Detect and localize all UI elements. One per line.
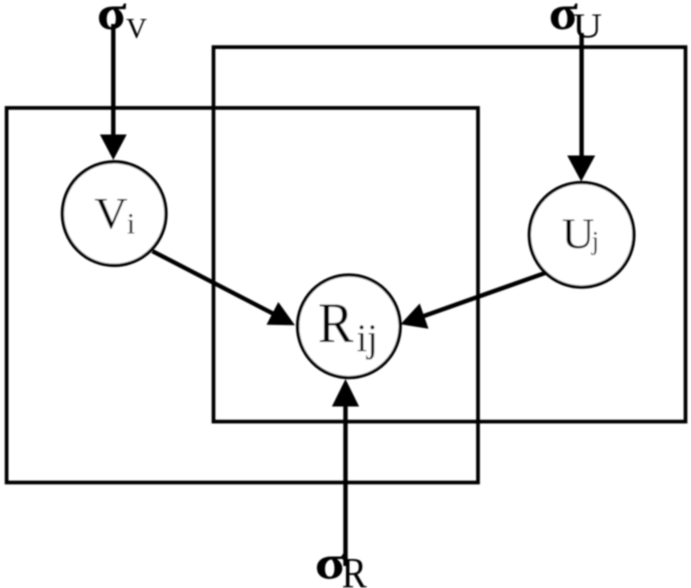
arrowhead into Rij right	[401, 304, 429, 329]
arrowhead into Rij bottom	[332, 379, 359, 407]
svg-text:j: j	[591, 227, 599, 256]
svg-text:U: U	[573, 7, 602, 46]
svg-text:ij: ij	[357, 318, 378, 361]
svg-text:i: i	[127, 208, 135, 240]
svg-text:U: U	[562, 209, 595, 258]
node circle Uj	[529, 183, 634, 288]
svg-text:R: R	[318, 291, 354, 354]
node circle Vi	[62, 162, 166, 266]
plate rectangle i (left)	[7, 108, 478, 483]
plate rectangle j (right)	[214, 47, 686, 422]
svg-text:σ: σ	[97, 0, 127, 40]
svg-text:V: V	[94, 189, 128, 238]
arrowhead into Uj	[567, 156, 595, 182]
arrowhead into Vi	[100, 135, 127, 161]
node circle Rij	[298, 275, 401, 378]
arrowhead into Rij left	[267, 302, 296, 325]
wire arrow shaft sigmaR to Rij	[343, 395, 347, 566]
svg-text:V: V	[126, 13, 147, 45]
wire arrow Vi to Rij	[153, 251, 286, 320]
svg-text:R: R	[342, 549, 367, 588]
wire arrow shaft sigmaV to Vi	[111, 24, 115, 145]
wire arrow shaft sigmaU to Uj	[579, 33, 583, 165]
wire arrow Uj to Rij	[410, 273, 546, 321]
